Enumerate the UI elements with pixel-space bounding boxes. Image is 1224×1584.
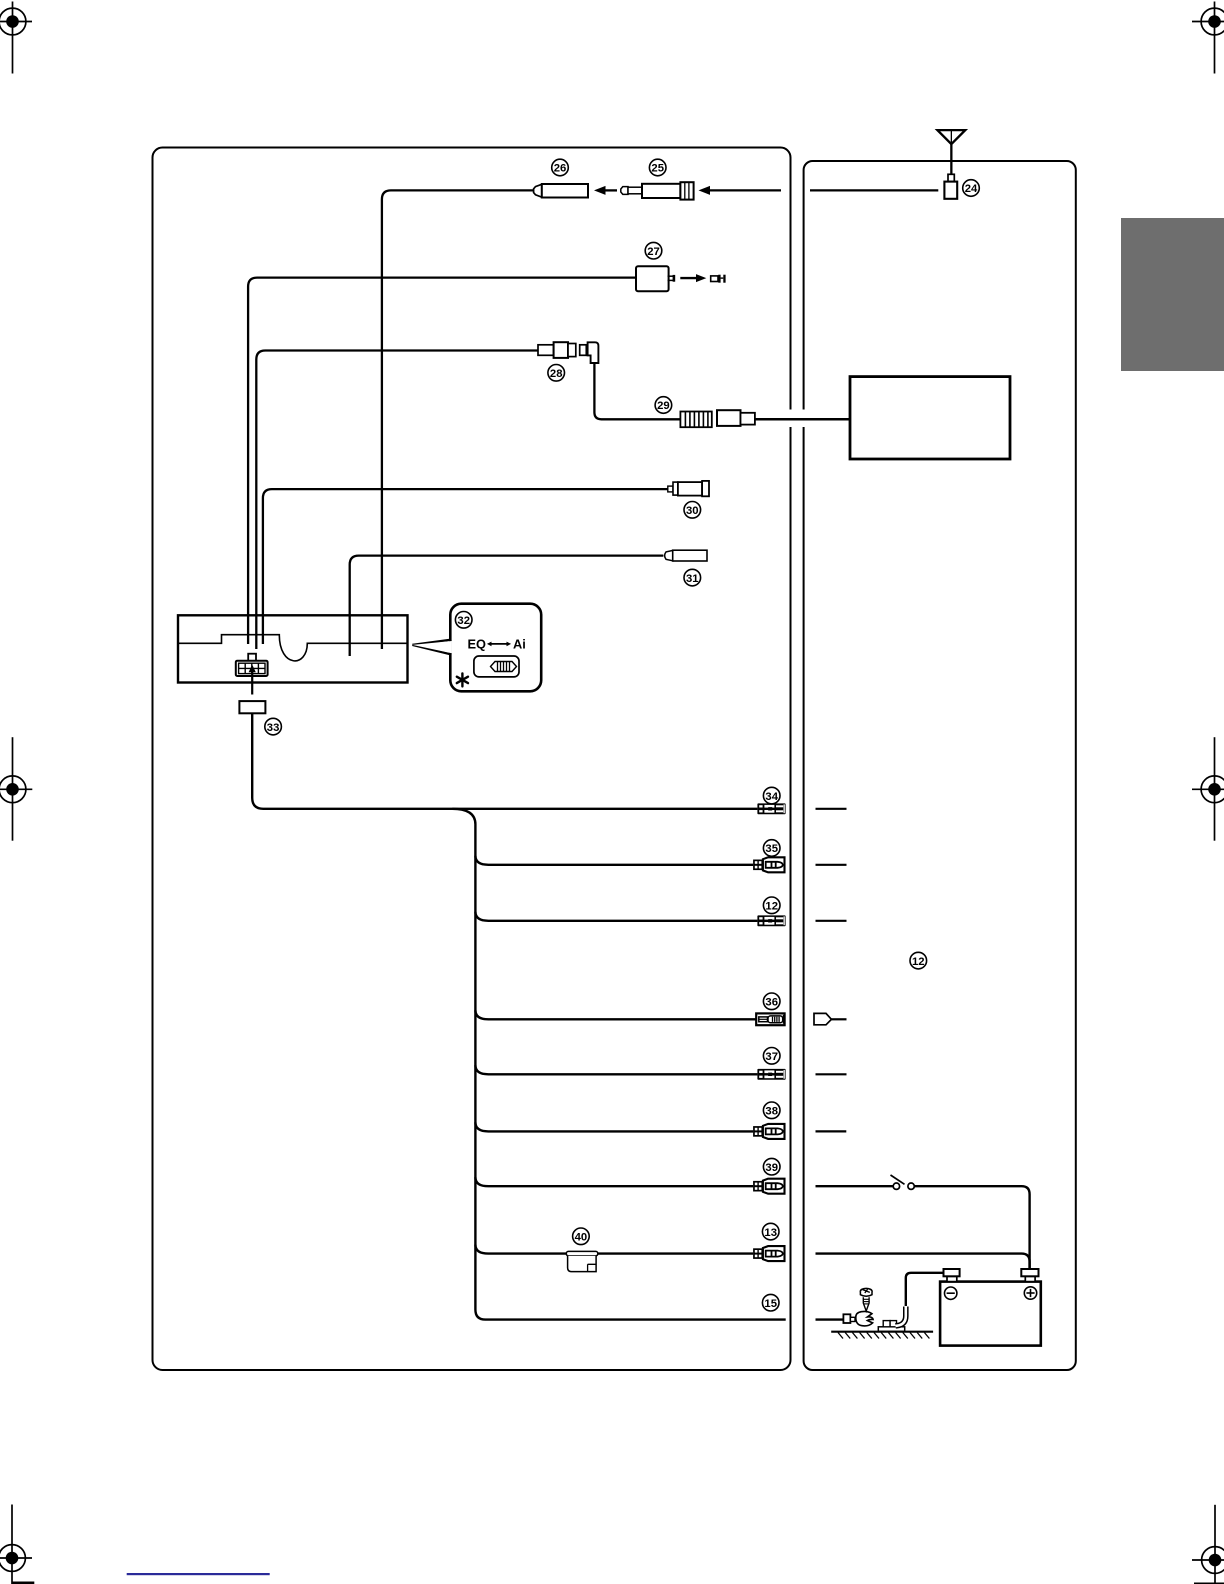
svg-text:EQ: EQ (468, 637, 487, 652)
svg-text:40: 40 (575, 1232, 588, 1244)
svg-text:26: 26 (554, 163, 567, 175)
svg-text:34: 34 (765, 791, 778, 803)
svg-text:32: 32 (457, 615, 470, 627)
svg-text:13: 13 (764, 1227, 777, 1239)
svg-text:29: 29 (657, 400, 670, 412)
svg-text:38: 38 (765, 1106, 778, 1118)
svg-text:25: 25 (651, 163, 664, 175)
svg-text:31: 31 (686, 573, 699, 585)
svg-text:35: 35 (765, 843, 778, 855)
svg-text:37: 37 (765, 1051, 778, 1063)
svg-text:39: 39 (765, 1162, 778, 1174)
svg-text:28: 28 (550, 368, 563, 380)
svg-text:33: 33 (267, 722, 280, 734)
svg-text:30: 30 (686, 505, 699, 517)
svg-text:12: 12 (912, 956, 925, 968)
svg-text:Ai: Ai (513, 637, 526, 652)
svg-text:36: 36 (765, 997, 778, 1009)
svg-text:27: 27 (647, 246, 660, 258)
svg-text:24: 24 (965, 183, 978, 195)
svg-text:15: 15 (764, 1298, 777, 1310)
svg-text:12: 12 (765, 901, 778, 913)
